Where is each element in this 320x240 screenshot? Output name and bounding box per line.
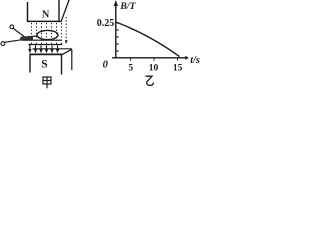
y tick 0.15 (116, 36, 119, 38)
svg-text:10: 10 (149, 64, 159, 74)
y tick 0.10 (116, 43, 119, 45)
magnet S pole top edge (29, 53, 62, 55)
lower lead wire under coil (22, 39, 62, 41)
wire from terminal B (5, 40, 23, 43)
magnet S pole front-left edge (29, 54, 31, 72)
terminal A (upper) (10, 25, 14, 29)
field line 1 (dashed) (31, 23, 33, 44)
magnet S pole top-right slanted edge (62, 49, 72, 54)
svg-text:t/s: t/s (190, 55, 200, 66)
field line 8 arrowhead (65, 40, 68, 44)
svg-text:B/T: B/T (119, 1, 136, 12)
curve B(t) (116, 22, 180, 57)
magnet N pole back-right slanted edge (61, 0, 69, 21)
wire junction shading (20, 36, 33, 40)
field line 6 (dashed) (56, 23, 58, 44)
graph x-axis (112, 57, 186, 59)
magnet N pole bottom edge (27, 20, 62, 22)
graph y-axis (115, 2, 117, 59)
x tick 5 (130, 58, 132, 61)
field line 7 (dashed) (61, 23, 63, 44)
field line 5 (dashed) (51, 23, 53, 44)
arrow into S 2 (40, 45, 42, 49)
svg-text:0: 0 (103, 59, 109, 70)
label yi (乙) drawn (146, 76, 154, 85)
y-axis arrowhead (114, 0, 118, 6)
magnet S pole back-top edge (33, 48, 72, 50)
arrow into S 4 (51, 45, 53, 49)
magnet N pole right edge (58, 0, 60, 21)
svg-text:15: 15 (173, 64, 183, 74)
arrow into S 0 (bold) (29, 45, 31, 50)
magnet S pole back-right edge (71, 50, 73, 71)
arrow into S 3 (46, 45, 48, 49)
x-axis arrowhead (185, 56, 189, 60)
svg-text:S: S (41, 58, 47, 70)
svg-text:N: N (42, 10, 50, 21)
label jia (甲) drawn (43, 77, 51, 88)
upper lead wire to coil (22, 36, 37, 37)
arrow into S 1 (35, 45, 37, 49)
field line 2 (dashed) (36, 23, 38, 44)
magnet N pole left edge (27, 2, 29, 22)
y tick 0.20 (116, 29, 119, 31)
y tick 0.05 (116, 50, 119, 52)
svg-text:0.25: 0.25 (97, 18, 115, 29)
x tick 10 (153, 58, 155, 61)
field line 3 (dashed) (41, 23, 43, 44)
y tick 0.25 (116, 22, 119, 24)
magnet S pole front-right edge (61, 54, 63, 74)
coil (ellipse) (37, 30, 58, 39)
wire from terminal A (13, 28, 24, 37)
svg-text:5: 5 (128, 64, 133, 74)
arrow into S 5 (57, 45, 59, 49)
platform line (28, 44, 62, 46)
field line 4 (dashed) (46, 23, 48, 44)
x tick 15 (177, 58, 179, 61)
terminal B (lower) (1, 42, 5, 46)
field line 8 right (dashed with arrow) (65, 17, 67, 41)
